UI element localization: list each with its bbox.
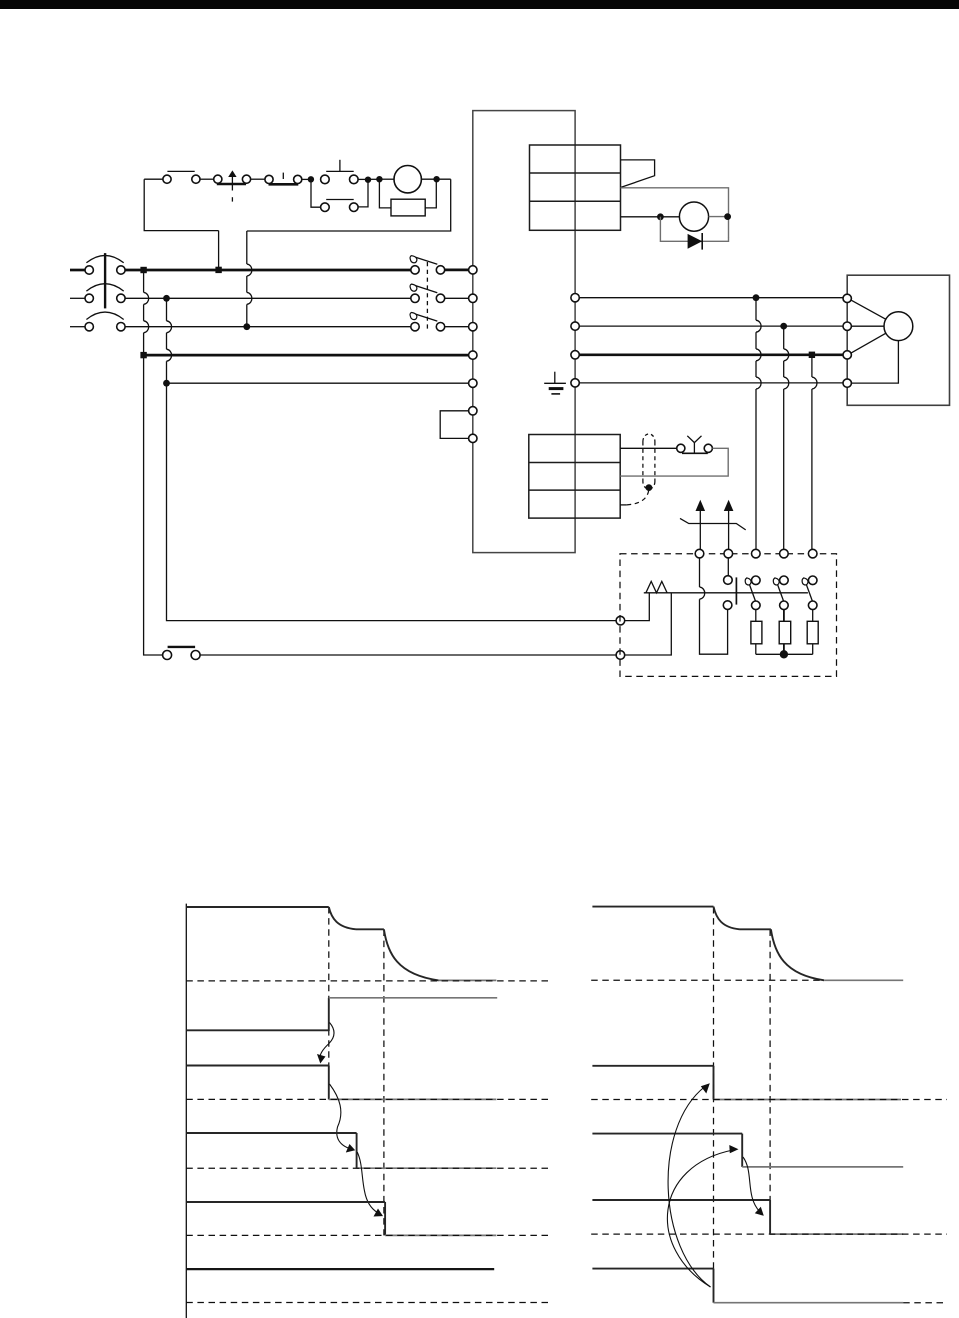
right wave3 — [592, 1134, 903, 1167]
wire: output W (thick) — [579, 353, 843, 356]
motor lead wires — [851, 300, 898, 383]
wire: dashed shield drain curve — [627, 491, 649, 505]
terminal table 1 — [530, 145, 621, 230]
right wave1 dashed baseline — [591, 979, 824, 981]
wire — [200, 178, 214, 180]
terminal table 2 — [529, 435, 620, 519]
lead arrows to braking unit — [696, 500, 734, 549]
inverter input terminals (left edge) — [469, 266, 477, 443]
discharge resistor 1 — [755, 610, 757, 622]
wire to junction — [302, 178, 311, 180]
wire: brake supply upper (gray) — [621, 188, 729, 237]
right wave2 dashed baseline — [591, 1099, 947, 1101]
wire: vertical drop x=166.5 from L2 to bottom wire A (hops L3,L4) — [167, 298, 616, 620]
connector flag — [621, 160, 655, 188]
right wave2 — [592, 1066, 901, 1100]
wire: return drop to phase L3 with hops over L1,L2 — [247, 231, 252, 327]
MCCB pole 2 — [70, 284, 125, 303]
wire into lamp — [379, 178, 394, 180]
wire: drop V to braking unit (hops W,E) — [784, 326, 789, 549]
node: resistor star point — [780, 650, 788, 658]
wire to lamp node — [368, 178, 379, 180]
left wave1: output frequency — [186, 907, 496, 980]
wire B to braking unit — [200, 654, 616, 656]
brake coil — [679, 202, 708, 231]
left arrow 1 — [317, 1023, 334, 1064]
ground — [544, 372, 566, 394]
node: L2 tap — [163, 295, 170, 302]
wire: branch down around holding contact — [358, 180, 368, 207]
wire: resistor right link up — [425, 179, 436, 208]
left arrow 2 — [330, 1084, 356, 1153]
braking unit enclosure (dashed) — [620, 554, 837, 677]
motor winding circle — [884, 312, 913, 341]
wires MC to inverter terminals — [445, 269, 469, 272]
wire: drop U to braking unit (hops V,W,E) — [756, 298, 761, 550]
wire: output V — [579, 325, 843, 327]
node: junction before stop button — [308, 176, 314, 182]
MCCB pole 3 — [70, 312, 125, 331]
resistor (lamp series unit) — [391, 199, 425, 216]
jumper link between control terminals — [440, 411, 469, 439]
flywheel diode — [688, 233, 703, 250]
node: junction on line 4 — [140, 352, 146, 358]
right wave4 — [592, 1200, 903, 1234]
right t1 dashed vertical — [713, 907, 715, 1269]
right arrow C to wave4 — [743, 1157, 764, 1216]
wire: brake supply lower — [621, 216, 680, 218]
node: junction on line 5 — [163, 380, 170, 387]
wire: right drop and return rail to L3 — [247, 179, 451, 231]
node: shield drain dot — [646, 484, 653, 491]
wire: branch down to resistor — [379, 179, 391, 208]
twisted pair slash — [680, 518, 746, 530]
MC pole 2 — [410, 284, 445, 302]
wire: stub into first contact — [144, 178, 163, 180]
node — [724, 213, 731, 220]
motor enclosure box — [847, 275, 949, 405]
switch pole 1 — [745, 576, 760, 610]
left wave3 dashed baseline — [186, 1098, 548, 1100]
wire: phase L1 (thick) — [125, 269, 411, 272]
left wave3 — [186, 1066, 496, 1100]
wire: terminal P drop with hop over bus — [700, 558, 728, 654]
switch pole 3 — [802, 576, 817, 610]
shielded-cable capsule (dashed) — [643, 434, 655, 489]
resistor bus line — [644, 592, 808, 594]
wire: diode loop — [660, 217, 728, 242]
left wave2: brake signal rise — [186, 998, 497, 1031]
node: tap on phase L1 — [215, 267, 221, 273]
contact: auxiliary NO interlock contact — [163, 171, 200, 183]
wire: output U — [579, 297, 843, 299]
wire: branch down to holding contact — [311, 179, 321, 207]
wire: line 4 (thick) to inverter — [144, 354, 469, 357]
MCCB mechanical link — [104, 253, 106, 308]
left wave6 dashed baseline — [186, 1302, 548, 1304]
left t2 dashed vertical — [383, 930, 385, 1236]
right t2 dashed vertical — [769, 930, 771, 1235]
right wave5 — [592, 1269, 903, 1303]
wire + node after stop button — [358, 178, 368, 180]
node: return taps phase L3 — [243, 323, 250, 330]
wire — [709, 216, 729, 218]
wire: phase L2 — [125, 297, 411, 299]
thermostat contact of braking resistor — [677, 436, 713, 454]
wire: zigzag left drop to terminal — [625, 593, 650, 621]
contact: thermal overload relay NC contact with trip arrow — [214, 170, 251, 201]
left wave6: steady signal — [186, 1268, 494, 1270]
wire: left drop from contact chain to L1 tap rail — [144, 179, 218, 230]
wire: phase L3 — [125, 326, 411, 328]
left wave4 — [186, 1133, 496, 1168]
wire: left tap drop to phase L1 — [218, 231, 220, 270]
contact: run pushbutton NO contact — [265, 173, 302, 185]
left arrow 3 — [357, 1152, 383, 1217]
wire: drop W to braking unit (hops E) — [812, 355, 817, 550]
wire: vertical drop x=143.6 from L1 to bottom wire B (hops L2,L3) — [144, 270, 163, 655]
right arrow A to wave2 — [668, 1083, 710, 1287]
wire: line 5 to inverter — [167, 382, 469, 384]
wire: thermostat return loop (gray) — [620, 448, 728, 476]
contact: stop pushbutton NC contact — [321, 160, 359, 184]
left wave5 dashed baseline — [186, 1234, 548, 1236]
inverter block outline — [473, 111, 575, 553]
left wave4 dashed baseline — [186, 1167, 548, 1169]
wire — [251, 178, 265, 180]
MC pole 3 — [410, 313, 445, 331]
wire to thermostat — [620, 447, 677, 449]
node — [657, 213, 664, 220]
braking unit top terminals — [695, 549, 817, 558]
inverter output terminals (right edge) — [571, 294, 579, 388]
contact: self-holding NO contact (parallel) — [321, 200, 359, 212]
MCCB pole 1 — [70, 255, 125, 274]
node: L1 tap to line 4 — [140, 267, 146, 273]
motor terminals — [843, 294, 851, 387]
discharge resistor 3 — [812, 610, 814, 622]
MC mechanical link (dashed) — [426, 262, 428, 331]
left wave1 dashed baseline — [186, 980, 548, 982]
wire: resistor common — [756, 653, 813, 655]
MC pole 1 — [410, 256, 445, 274]
thermal NO contact (vertical) — [723, 558, 736, 609]
wire: zigzag right drop to terminal — [625, 593, 672, 655]
wire A terminal circle on braking unit — [616, 616, 625, 625]
discharge resistor 2 — [783, 610, 785, 622]
pilot lamp PL — [394, 166, 421, 193]
fault NC contact — [163, 647, 201, 660]
wire: earth line to motor — [579, 382, 843, 384]
header black bar — [0, 0, 959, 9]
left t1 dashed vertical — [328, 907, 330, 1099]
wire B terminal circle — [616, 651, 625, 660]
switch pole 2 — [773, 576, 788, 610]
right arrow B to wave3 — [667, 1145, 738, 1287]
left wave5 — [186, 1202, 496, 1235]
wire: shield drain stub — [620, 504, 627, 506]
right wave4 dashed baseline — [591, 1233, 947, 1235]
left axis — [185, 904, 187, 1318]
right wave1: output frequency — [592, 907, 903, 981]
wire lamp to node — [421, 178, 450, 180]
right wave5 dashed baseline (right part) — [903, 1302, 947, 1304]
braking resistor zigzag — [646, 581, 667, 592]
